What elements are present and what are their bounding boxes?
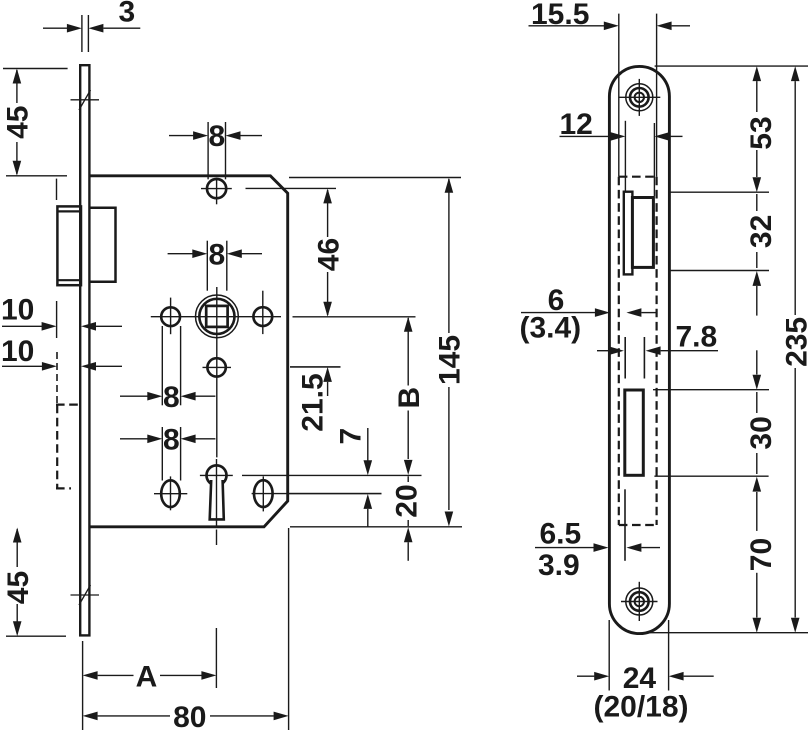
dim 21.5 xyxy=(290,367,341,432)
deadbolt thrown dashed outline xyxy=(56,405,80,489)
dim 145 xyxy=(434,178,467,527)
svg-text:21.5: 21.5 xyxy=(296,373,329,431)
dim 6.5 over 3.9 xyxy=(535,518,660,583)
dim 235 xyxy=(781,66,811,633)
dim 45 top xyxy=(2,69,68,176)
faceplate break mark bottom xyxy=(71,585,100,605)
dim 70 xyxy=(745,538,778,633)
hole row extension right xyxy=(293,316,416,318)
faceplate xyxy=(80,65,89,635)
latch bolt head xyxy=(57,206,81,285)
plate bottom extension xyxy=(647,632,808,634)
dim 8 top hole xyxy=(169,120,262,179)
dim 7 xyxy=(334,428,372,527)
svg-text:45: 45 xyxy=(2,571,35,604)
ref line 6.5 xyxy=(624,489,626,561)
top screw hole xyxy=(618,79,660,116)
dim B xyxy=(393,317,426,475)
keyhole row extension xyxy=(242,474,422,476)
svg-text:B: B xyxy=(393,387,426,409)
dim 32 xyxy=(745,194,778,316)
svg-text:32: 32 xyxy=(745,215,778,248)
svg-text:30: 30 xyxy=(745,416,778,449)
dim 53 xyxy=(745,66,778,192)
latch window xyxy=(632,198,653,268)
svg-text:10: 10 xyxy=(1,294,34,327)
extension line case top left xyxy=(6,175,67,177)
latch follower block xyxy=(90,208,116,282)
dim 12 xyxy=(560,108,683,196)
latch bolt profile xyxy=(624,192,633,275)
deadbolt window top extension xyxy=(653,389,769,391)
latch window top extension xyxy=(669,191,769,193)
dim 46 xyxy=(246,188,346,316)
svg-text:8: 8 xyxy=(163,424,180,457)
lock case outline xyxy=(90,176,288,527)
dim 8 spindle square xyxy=(168,238,262,290)
dim 8 left hole diameter xyxy=(120,326,215,414)
deadbolt window bottom extension xyxy=(654,475,768,477)
bottom screw hole xyxy=(621,582,658,621)
case bottom extension right xyxy=(290,526,462,528)
svg-text:45: 45 xyxy=(2,106,35,139)
dim 20 xyxy=(390,476,423,561)
svg-text:3: 3 xyxy=(119,0,136,29)
svg-text:8: 8 xyxy=(209,120,226,153)
svg-text:10: 10 xyxy=(1,335,34,368)
svg-text:A: A xyxy=(136,660,158,693)
svg-text:8: 8 xyxy=(209,238,226,271)
lower hole extension right xyxy=(290,366,341,368)
dim 6 (3.4) xyxy=(519,284,656,345)
keyhole centerlines xyxy=(200,459,233,545)
hole row centerline xyxy=(151,316,281,318)
top mounting hole xyxy=(201,178,232,204)
lock case hidden outline dashed xyxy=(619,177,657,525)
dim 10 upper latch protrusion xyxy=(1,294,122,339)
svg-text:70: 70 xyxy=(745,538,778,571)
latch window bottom extension xyxy=(669,270,769,272)
dim 3 faceplate thickness xyxy=(43,0,140,52)
dim 45 bottom xyxy=(2,528,66,637)
dim 10 lower deadbolt protrusion xyxy=(1,335,122,403)
keyhole xyxy=(207,465,227,519)
svg-text:80: 80 xyxy=(173,701,206,730)
spindle hub xyxy=(196,295,239,338)
dim 7.8 xyxy=(597,321,718,356)
svg-text:7: 7 xyxy=(334,428,367,445)
left slot hole xyxy=(154,476,187,510)
svg-text:6.5: 6.5 xyxy=(540,518,582,551)
svg-text:235: 235 xyxy=(781,317,811,367)
dim A backset xyxy=(83,628,217,730)
lower small hole xyxy=(203,358,232,376)
plate top extension xyxy=(655,65,808,67)
dim 80 case depth xyxy=(83,528,289,734)
svg-text:8: 8 xyxy=(163,381,180,414)
case top extension right xyxy=(289,177,461,179)
deadbolt window xyxy=(625,390,644,475)
svg-text:(20/18): (20/18) xyxy=(593,691,688,724)
label (20/18) xyxy=(593,691,688,724)
dim 24 xyxy=(577,620,714,695)
svg-text:3.9: 3.9 xyxy=(538,549,580,582)
svg-text:53: 53 xyxy=(745,116,778,149)
dim 15.5 xyxy=(529,0,691,177)
svg-text:145: 145 xyxy=(434,335,467,385)
strike plate outline xyxy=(609,66,669,633)
left fixing hole xyxy=(161,298,180,335)
svg-text:46: 46 xyxy=(312,238,345,271)
spindle vertical centerline xyxy=(216,287,218,457)
dim 8 slot width xyxy=(120,424,215,481)
dim 30 xyxy=(745,350,778,531)
spindle square hole xyxy=(206,306,227,327)
latch face extension line xyxy=(56,179,58,200)
right fixing hole xyxy=(253,291,272,334)
svg-text:7.8: 7.8 xyxy=(676,321,718,354)
svg-text:(3.4): (3.4) xyxy=(519,312,581,345)
slot row extension xyxy=(287,493,382,495)
faceplate break mark top xyxy=(71,90,100,110)
spindle square hidden edges xyxy=(625,337,644,379)
svg-text:20: 20 xyxy=(390,484,423,517)
right slot hole xyxy=(252,476,382,511)
